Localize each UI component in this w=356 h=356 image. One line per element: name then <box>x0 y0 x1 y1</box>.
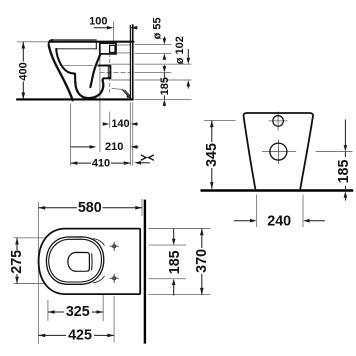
extension lines rear view <box>204 120 353 227</box>
seat inner thin <box>56 48 96 50</box>
seat ring sketch arc top right <box>93 239 105 246</box>
outlet corner symbol <box>112 88 122 89</box>
symbol >< <box>141 155 154 160</box>
svg-text:240: 240 <box>267 214 291 230</box>
floor side view <box>16 98 133 100</box>
rear big circle <box>270 143 287 160</box>
ceramic front <box>49 46 73 100</box>
waterline <box>64 65 94 67</box>
fixing crosshair bottom <box>110 274 119 283</box>
svg-text:185: 185 <box>336 160 352 184</box>
svg-text:325: 325 <box>66 304 90 320</box>
dimension 425 <box>39 334 115 338</box>
dimension ø55 <box>163 37 167 60</box>
svg-text:410: 410 <box>92 157 110 169</box>
flush box <box>100 43 116 54</box>
dimension 185 side <box>163 65 167 107</box>
svg-text:400: 400 <box>18 62 30 80</box>
rear small circle <box>273 116 284 127</box>
svg-text:100: 100 <box>89 16 107 28</box>
dimension 370 plan <box>200 229 204 295</box>
svg-text:425: 425 <box>68 327 92 343</box>
bowl rear wall <box>90 54 100 87</box>
toilet side section <box>49 40 134 100</box>
fixing crosshair top <box>110 242 119 251</box>
seat hole <box>68 252 90 271</box>
svg-text:185: 185 <box>159 77 171 95</box>
svg-text:140: 140 <box>111 118 129 130</box>
seat ring outer <box>46 237 103 284</box>
dimension 185 rear <box>344 120 348 201</box>
outlet box inner line <box>108 66 110 77</box>
svg-text:345: 345 <box>204 143 220 167</box>
dimension 240 <box>234 219 325 223</box>
seat ring inner <box>49 239 102 282</box>
dimension 580 <box>39 206 143 210</box>
rear floor <box>201 189 354 192</box>
svg-text:580: 580 <box>78 200 102 216</box>
extension lines plan view <box>14 199 211 344</box>
dimension 410 <box>71 161 150 165</box>
svg-text:185: 185 <box>167 250 183 274</box>
svg-text:275: 275 <box>9 250 25 274</box>
dimension 210 <box>71 145 139 149</box>
wall side view <box>130 24 132 100</box>
wall bar plan <box>144 200 146 344</box>
bowl inner front <box>56 49 75 82</box>
seat ring sketch arc bottom right <box>93 276 105 283</box>
dimension 275 <box>15 238 19 284</box>
extension lines side view <box>17 21 192 165</box>
ceramic rim top <box>50 41 134 43</box>
dimension 345 <box>210 120 214 188</box>
svg-text:ø 102: ø 102 <box>174 36 186 64</box>
outlet box <box>98 66 110 79</box>
crosshair small circle <box>262 112 296 165</box>
seat top thin <box>52 39 96 41</box>
seat front nose <box>49 40 53 46</box>
dimension ø102 <box>187 49 191 89</box>
plan bowl outer <box>39 229 141 295</box>
dimension 140 <box>103 122 138 126</box>
svg-text:370: 370 <box>194 249 210 273</box>
seat back end vertical <box>95 43 97 49</box>
svg-text:ø 55: ø 55 <box>152 17 164 39</box>
svg-text:210: 210 <box>105 141 123 153</box>
dimension 185 plan <box>172 229 176 296</box>
dimension 400 <box>22 42 26 99</box>
rear trapezoid <box>244 113 313 189</box>
dimension 100 <box>94 26 138 30</box>
seat hole right double line <box>91 253 93 270</box>
flush box inner square <box>110 45 115 52</box>
dimension 325 <box>48 310 103 314</box>
trap outer U + channel lower wall <box>75 79 104 99</box>
